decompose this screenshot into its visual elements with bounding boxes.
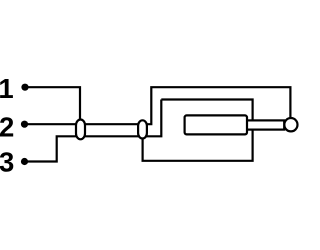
svg-text:3: 3 — [0, 147, 14, 178]
svg-text:1: 1 — [0, 73, 14, 104]
svg-text:2: 2 — [0, 112, 14, 143]
